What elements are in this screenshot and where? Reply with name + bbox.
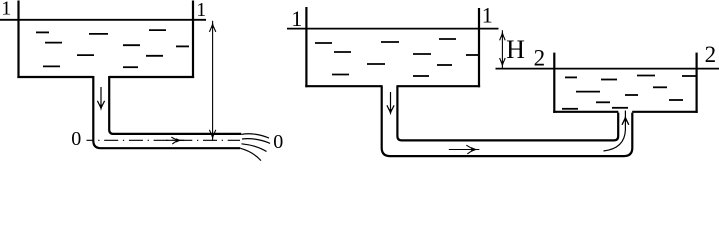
svg-text:2: 2 bbox=[705, 42, 717, 67]
svg-text:0: 0 bbox=[273, 131, 283, 153]
svg-text:1: 1 bbox=[482, 2, 493, 27]
svg-text:H: H bbox=[506, 35, 525, 64]
svg-text:2: 2 bbox=[534, 46, 546, 71]
svg-text:0: 0 bbox=[71, 128, 81, 150]
svg-text:1: 1 bbox=[1, 0, 11, 20]
svg-text:1: 1 bbox=[291, 6, 302, 31]
svg-text:1: 1 bbox=[196, 0, 206, 21]
